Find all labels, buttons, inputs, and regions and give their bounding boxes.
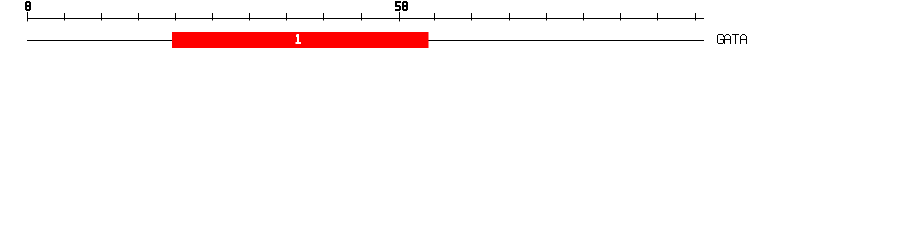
major tick 0 <box>27 12 28 21</box>
major tick 50 <box>399 12 400 21</box>
label "0" digit glyph <box>25 1 31 11</box>
letter A <box>740 34 747 44</box>
sequence line <box>27 40 704 41</box>
letter G <box>717 34 724 44</box>
minor ticks <box>64 13 696 21</box>
feature label "1" (white digit) <box>296 34 302 44</box>
letter T <box>732 34 739 44</box>
letter A <box>724 34 731 44</box>
label "50" digit 5 glyph <box>395 1 401 11</box>
ruler axis line <box>27 18 704 19</box>
feature box (red) <box>172 32 429 48</box>
label "50" digit 0 glyph <box>402 1 408 11</box>
